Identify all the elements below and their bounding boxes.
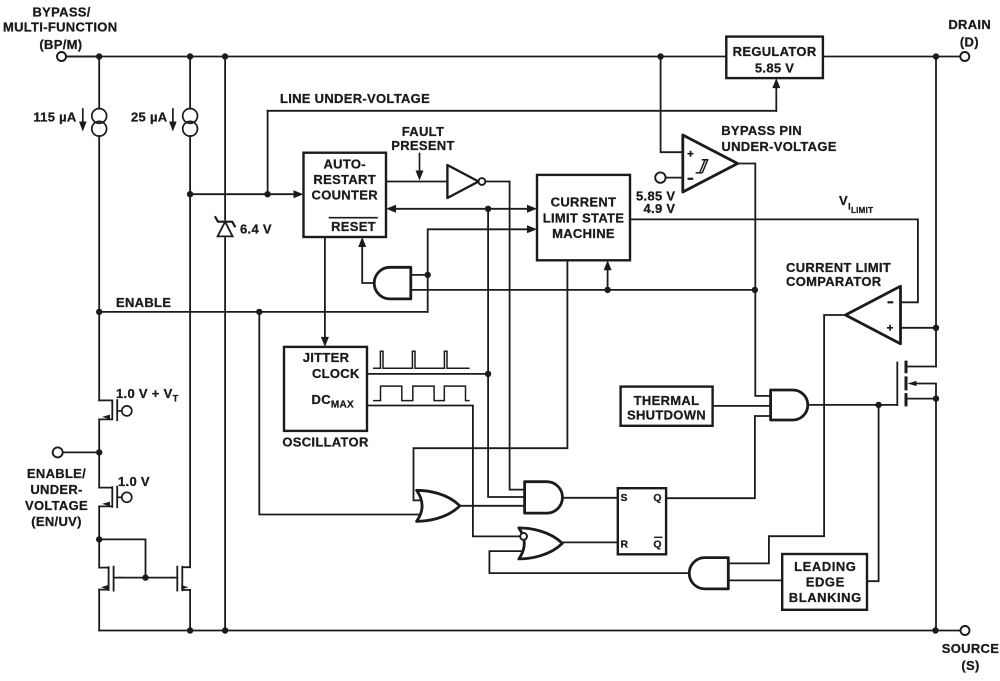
junction MOSFET source rail — [933, 395, 939, 401]
BOXES — [284, 37, 867, 610]
zener diode 6.4V — [215, 217, 234, 236]
or gate O2 input bubble — [520, 533, 527, 540]
wire thermal-AND output to MOSFET gate — [809, 404, 898, 406]
wire line under-voltage horizontal — [268, 110, 777, 112]
comparator U2 plus sign — [688, 151, 694, 157]
and gate A1 reset driver (faces left) — [374, 267, 411, 299]
svg-text:EDGE: EDGE — [806, 575, 845, 590]
svg-text:MACHINE: MACHINE — [552, 226, 615, 241]
comparator U2 hysteresis glyph — [696, 160, 709, 173]
svg-text:LIMIT STATE: LIMIT STATE — [543, 211, 625, 226]
svg-text:(EN/UV): (EN/UV) — [31, 514, 82, 529]
junction bottom rail x190 — [187, 627, 193, 633]
comparator U3 current limit (faces left) — [846, 286, 901, 344]
wire rail x=190 top to current source 2 — [189, 57, 191, 568]
wire MOSFET gate node down to LEB right input — [868, 405, 879, 581]
WAVEFORMS — [374, 351, 469, 400]
inverter U1 fault present — [447, 165, 478, 198]
wire drain stub to pin — [936, 56, 960, 58]
wire ARC bottom to oscillator top arrow — [324, 237, 326, 343]
wire drain rail down to MOSFET top — [935, 57, 937, 367]
wire CLSM output to VILIMIT to comparator minus — [630, 219, 918, 302]
label latch Qbar overline — [655, 536, 662, 538]
wire oscillator jitter clock output — [367, 373, 488, 375]
wire enable branch down to OR1 bottom input — [259, 312, 433, 515]
junction ARC input rail190 — [187, 191, 193, 197]
PINS — [53, 52, 970, 635]
svg-text:UNDER-: UNDER- — [30, 482, 82, 497]
wire rail x=190 below NM2 to bottom rail — [189, 590, 191, 631]
junction comparator plus rail — [933, 325, 939, 331]
svg-text:COMPARATOR: COMPARATOR — [786, 274, 882, 289]
junction bottom rail source — [932, 627, 938, 633]
arrowhead ARC-CLSM left end — [386, 205, 396, 213]
arrowhead fault present down — [416, 171, 424, 181]
wire inverter output right then down to S-AND top input — [486, 182, 524, 490]
junction top rail x99 — [96, 53, 102, 59]
wire bypass pin circle to comparator minus — [666, 177, 682, 179]
svg-text:BYPASS/: BYPASS/ — [32, 5, 90, 20]
pin DRAIN — [960, 52, 969, 61]
junction ARC input LUV — [264, 191, 270, 197]
junction EN/UV rail99 — [96, 449, 102, 455]
wire rail x=225 top through zener to bottom rail — [224, 57, 226, 631]
junction jitter clock tap — [485, 371, 491, 377]
svg-text:CLOCK: CLOCK — [312, 366, 360, 381]
and gate A3 thermal/power 3-input — [771, 390, 808, 420]
junction mirror tap rail99 — [96, 536, 102, 542]
transistor NM1 current mirror left — [99, 567, 108, 590]
wire top rail BP/M to regulator — [66, 56, 726, 58]
pin SOURCE — [961, 626, 970, 635]
current source I1 arrow — [82, 109, 84, 127]
wire BP/M pin stub — [66, 56, 99, 58]
transistor NM2 current mirror right — [182, 567, 190, 591]
and gate A4 LEB driver (faces left) — [689, 558, 728, 589]
arrowhead enable into CLSM — [527, 225, 537, 233]
arrowhead ARC-CLSM right end — [527, 205, 537, 213]
wire enable up to CLSM input arrow — [428, 229, 529, 312]
or gate O1 enable/clock — [417, 490, 460, 521]
svg-text:OSCILLATOR: OSCILLATOR — [282, 435, 369, 450]
svg-text:1.0 V: 1.0 V — [118, 474, 150, 489]
comparator U2 minus sign — [688, 178, 694, 180]
svg-text:ENABLE: ENABLE — [116, 295, 171, 310]
arrowhead up into ARC reset — [358, 237, 366, 247]
box thermal shutdown — [621, 387, 713, 426]
wire clock vertical down to S-AND middle input — [488, 209, 523, 497]
power MOSFET gate bar — [896, 363, 898, 405]
wire MOSFET source bar to rail — [908, 398, 937, 400]
wire LEB-AND bottom input from LEB box — [729, 579, 782, 581]
wire S-AND output to latch S — [561, 497, 618, 499]
wire CLSM bottom down-left-down to OR1 top input — [414, 260, 568, 500]
wire regulator top junction down to bypass comparator plus — [661, 57, 682, 153]
junction bottom rail x225 — [222, 627, 228, 633]
transistor T1 1.0V+VT — [99, 400, 112, 419]
wire ARC output to inverter — [386, 181, 447, 183]
box current limit state machine — [537, 175, 630, 260]
wire left rail x=99 top to T1 — [98, 57, 100, 401]
svg-text:FAULT: FAULT — [402, 124, 444, 139]
svg-text:(D): (D) — [960, 35, 979, 50]
svg-text:PRESENT: PRESENT — [391, 138, 455, 153]
wire latch Q output right and up to thermal-AND bottom input — [666, 416, 769, 498]
wire left rail NM1 to bottom rail — [98, 590, 100, 631]
transistor T2 1.0V — [99, 487, 112, 507]
svg-text:BLANKING: BLANKING — [789, 590, 862, 605]
pin EN/UV — [53, 447, 63, 457]
wire arrow branch up into CLSM bottom — [607, 267, 609, 290]
svg-text:5.85 V: 5.85 V — [755, 60, 794, 75]
junction reset line CLSM branch — [604, 287, 610, 293]
wire bypass comparator output down to thermal-AND top input — [738, 164, 770, 396]
arrowhead into ARC left — [294, 190, 304, 198]
current source I1 115uA circles — [92, 109, 107, 124]
svg-text:CURRENT LIMIT: CURRENT LIMIT — [786, 260, 891, 275]
arrowhead up into CLSM bottom — [604, 260, 612, 270]
waveform DCmax square wave — [374, 386, 469, 401]
power MOSFET channel bars — [905, 362, 908, 405]
wire current mirror gate tie — [99, 539, 171, 577]
box oscillator — [284, 347, 367, 431]
svg-text:SHUTDOWN: SHUTDOWN — [627, 408, 706, 423]
svg-text:SOURCE: SOURCE — [942, 641, 999, 656]
svg-text:JITTER: JITTER — [303, 350, 350, 365]
svg-text:DRAIN: DRAIN — [948, 17, 991, 32]
wire regulator to drain rail — [823, 56, 936, 58]
svg-text:ENABLE/: ENABLE/ — [27, 466, 86, 481]
pin bypass threshold — [655, 172, 665, 182]
current source I2 25uA circles — [183, 109, 198, 124]
junction top rail drain — [933, 53, 939, 59]
ARROWHEADS — [294, 78, 781, 347]
box regulator — [726, 37, 823, 79]
wire OR1 output to S-AND bottom input — [458, 505, 524, 507]
wire bottom source rail — [99, 630, 960, 632]
wire line under-voltage up into regulator — [775, 85, 777, 111]
svg-text:4.9 V: 4.9 V — [644, 201, 676, 216]
power MOSFET body arrow — [908, 381, 917, 386]
wire comparator plus input to drain rail — [902, 327, 936, 329]
svg-text:BYPASS PIN: BYPASS PIN — [721, 123, 802, 138]
svg-text:LEADING: LEADING — [794, 559, 856, 574]
label ARC reset overline — [330, 217, 378, 219]
box auto-restart counter — [304, 153, 387, 237]
wire comparator output down-left-down to LEB-AND top input — [729, 315, 846, 563]
junction top rail x225 — [222, 53, 228, 59]
junction enable AND branch — [425, 272, 431, 278]
junction clock line — [485, 206, 491, 212]
wire RESET-AND output up to ARC reset — [362, 246, 374, 284]
comparator U3 plus sign — [887, 325, 893, 331]
svg-text:R: R — [621, 539, 629, 551]
svg-text:RESTART: RESTART — [313, 172, 376, 187]
svg-text:S: S — [621, 492, 628, 504]
wire oscillator DCmax output down to R-OR bubble input — [367, 406, 520, 537]
box leading edge blanking — [782, 554, 867, 610]
inverter U1 bubble — [479, 178, 486, 185]
comparator U3 minus sign — [888, 301, 894, 303]
or gate O2 R-driver with inverted input — [519, 528, 563, 559]
wire LEB-AND output left then up to R-OR bottom input — [489, 551, 689, 573]
wire EN/UV pin to rail — [63, 451, 99, 453]
waveform jitter clock pulses — [374, 351, 469, 368]
svg-text:AUTO-: AUTO- — [323, 157, 365, 172]
junction MOSFET gate node — [875, 402, 881, 408]
current source I2 arrow — [172, 109, 174, 127]
svg-text:MULTI-FUNCTION: MULTI-FUNCTION — [3, 20, 117, 35]
svg-text:VOLTAGE: VOLTAGE — [25, 498, 88, 513]
wire rail190 branch to ARC input arrow — [190, 193, 297, 195]
wire enable horizontal — [99, 311, 428, 313]
wire thermal shutdown output to thermal-AND middle input — [713, 405, 770, 407]
svg-text:RESET: RESET — [331, 219, 376, 234]
label latch pins — [621, 492, 662, 551]
junction enable rail99 — [96, 309, 102, 315]
and gate A2 S-driver 3-input — [525, 482, 563, 513]
wire left rail T1 to T2 — [98, 419, 100, 487]
svg-text:Q: Q — [653, 539, 661, 551]
svg-text:115 µA: 115 µA — [33, 110, 77, 125]
wire enable branch to RESET-AND top input — [411, 274, 428, 276]
svg-text:6.4 V: 6.4 V — [240, 222, 272, 237]
comparator U2 bypass pin under-voltage — [683, 135, 738, 192]
label LEB box text — [789, 559, 862, 605]
svg-text:COUNTER: COUNTER — [312, 187, 379, 202]
svg-text:THERMAL: THERMAL — [634, 393, 700, 408]
junction mirror gate node — [142, 574, 148, 580]
svg-text:Q: Q — [653, 492, 661, 504]
wire MOSFET drain bar to rail — [908, 366, 937, 368]
junction top rail x190 — [187, 53, 193, 59]
box SR latch — [618, 488, 666, 554]
wire RESET-AND bottom input long line to bypass-UV node — [411, 289, 755, 291]
junction top rail regulator tap — [657, 53, 663, 59]
wire R-OR output to latch R — [563, 541, 618, 543]
GATES — [374, 135, 900, 589]
junction reset line bypass node — [752, 287, 758, 293]
wire line under-voltage down to ARC input — [267, 111, 269, 194]
fault present arrow line — [419, 154, 421, 174]
junction enable branch down — [256, 309, 262, 315]
wire source rail down to bottom — [935, 399, 937, 631]
svg-text:(S): (S) — [961, 658, 979, 673]
arrowhead down into oscillator top — [321, 337, 329, 347]
svg-text:LINE UNDER-VOLTAGE: LINE UNDER-VOLTAGE — [280, 91, 430, 106]
wire left rail T2 to NM1 — [98, 506, 100, 567]
svg-text:(BP/M): (BP/M) — [39, 37, 82, 52]
svg-text:REGULATOR: REGULATOR — [733, 44, 817, 59]
wire MOSFET body arrow line to rail down to source junction — [916, 384, 937, 399]
svg-text:25 µA: 25 µA — [131, 110, 168, 125]
svg-text:UNDER-VOLTAGE: UNDER-VOLTAGE — [721, 139, 836, 154]
pin BP/M — [57, 52, 66, 61]
svg-text:CURRENT: CURRENT — [551, 195, 617, 210]
arrowhead up into regulator bottom — [772, 78, 780, 88]
wire ARC-CLSM clock line — [392, 208, 532, 210]
